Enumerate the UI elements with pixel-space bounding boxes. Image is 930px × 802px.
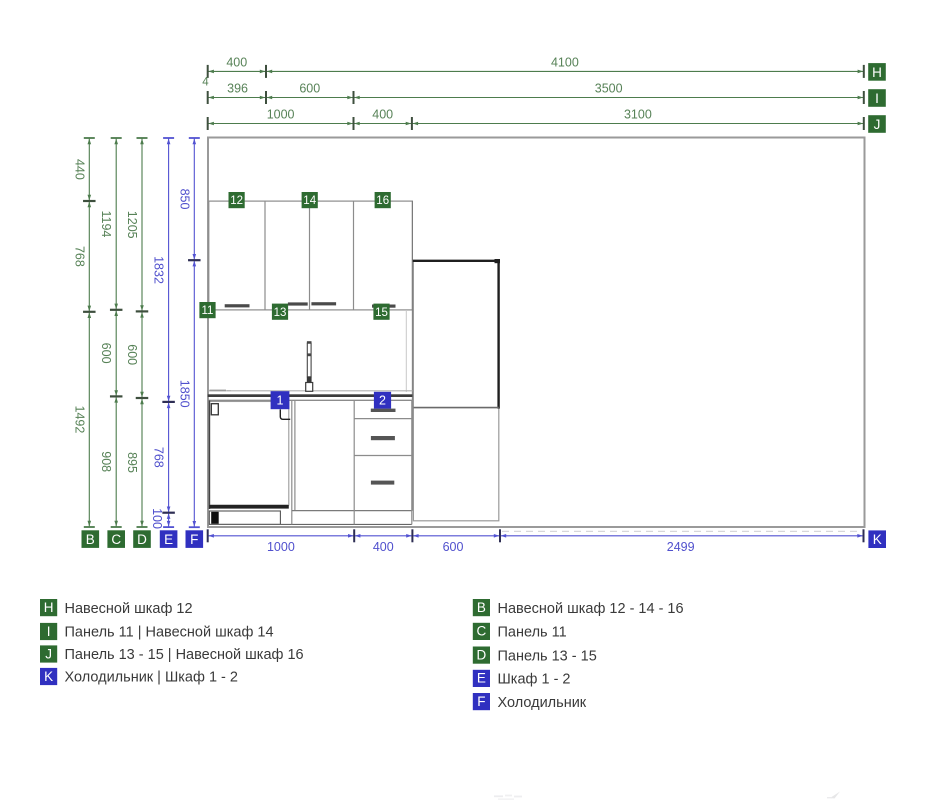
svg-text:11: 11 [202,305,214,317]
svg-text:600: 600 [125,344,139,365]
dimension line E [150,138,175,529]
tag C [107,530,125,548]
svg-text:16: 16 [376,195,389,207]
legend row J [40,645,304,663]
svg-text:F: F [190,532,198,547]
drawer unit edges [354,400,412,524]
svg-text:C: C [477,624,487,639]
svg-text:Навесной шкаф 12: Навесной шкаф 12 [65,601,193,617]
tag 16 [375,192,391,208]
legend row F [473,693,587,711]
svg-text:600: 600 [299,82,320,96]
drawer handle 2 [371,436,395,440]
svg-text:768: 768 [152,447,166,468]
svg-text:K: K [873,532,882,547]
svg-text:H: H [44,600,54,615]
plinth bottom line [209,523,411,525]
svg-text:Панель 11: Панель 11 [498,625,567,641]
svg-text:4: 4 [202,77,209,89]
svg-text:1000: 1000 [267,108,295,122]
legend row I [40,623,274,641]
tag K [868,530,886,548]
svg-text:13: 13 [274,307,287,319]
svg-text:J: J [874,117,881,132]
svg-text:Навесной шкаф 12 - 14 - 16: Навесной шкаф 12 - 14 - 16 [498,601,684,617]
svg-text:4100: 4100 [551,56,579,70]
svg-text:I: I [875,91,879,106]
svg-text:H: H [872,65,882,80]
sink cabinet door edges [292,400,295,524]
svg-text:396: 396 [227,82,248,96]
svg-text:Панель 13 - 15 | Навесной шкаф: Панель 13 - 15 | Навесной шкаф 16 [65,647,304,663]
svg-text:400: 400 [372,108,393,122]
dimension line I [208,82,864,104]
svg-text:1492: 1492 [72,405,86,433]
tag I [868,89,886,107]
svg-text:E: E [164,532,173,547]
tag 2 [374,392,391,409]
svg-text:440: 440 [72,159,86,180]
dimension line D [125,138,148,527]
svg-text:3500: 3500 [595,82,623,96]
svg-text:1205: 1205 [125,211,139,239]
svg-text:12: 12 [230,195,243,207]
svg-text:E: E [477,671,486,686]
fridge body [413,259,500,521]
svg-text:J: J [45,646,52,661]
tag H [868,63,886,81]
backsplash panel right edge [411,201,413,511]
svg-text:1194: 1194 [99,210,113,237]
legend row D [473,647,597,665]
tag F [186,530,204,548]
wall cabinet handle (door 12) [225,304,250,307]
drawer handle 3 [371,481,394,485]
svg-text:Панель 11 | Навесной шкаф 14: Панель 11 | Навесной шкаф 14 [65,625,274,641]
svg-text:I: I [47,624,51,639]
sink rim marks [210,390,232,392]
svg-text:Холодильник | Шкаф 1 - 2: Холодильник | Шкаф 1 - 2 [65,670,238,686]
svg-text:2: 2 [379,394,386,408]
svg-text:1000: 1000 [267,540,295,554]
base cabinets top rail [208,399,412,401]
backsplash inner faint line [405,310,407,392]
base cabinet 1 handle [211,404,218,415]
drawer handle 1 [371,409,396,412]
legend row B [473,599,684,617]
plinth box [209,511,280,524]
tag 12 [229,192,245,208]
faint artifact left [494,795,522,800]
legend row C [473,623,567,641]
faint floor noise dashes [502,530,858,532]
wall cabinet handle (door 14 left) [288,302,308,305]
base cabinets bottom line [292,510,412,512]
svg-text:1832: 1832 [152,256,166,284]
svg-text:600: 600 [99,343,113,364]
dimension line F [177,138,200,527]
svg-text:F: F [477,694,485,709]
base cabinet 1 door bottom bar [209,505,288,509]
wall cabinets 12-14-16 outline [209,201,413,310]
wall cabinet handle (door 16) [372,305,396,308]
dimension line H [208,56,864,78]
svg-text:908: 908 [99,451,113,472]
tag 11 [199,302,215,318]
wall outline [208,138,865,528]
legend row K [40,668,238,686]
svg-text:D: D [477,647,487,662]
svg-text:K: K [44,669,53,684]
tag 13 [272,304,288,320]
svg-text:B: B [86,532,95,547]
svg-text:B: B [477,600,486,615]
faint artifact right [827,792,840,799]
svg-text:895: 895 [125,452,139,473]
svg-text:1850: 1850 [177,380,191,408]
legend row H [40,599,193,617]
svg-text:1: 1 [277,394,284,408]
svg-text:3100: 3100 [624,108,652,122]
wall cabinet handle (door 14 right) [311,302,336,305]
counter back edge line [209,390,413,392]
dimension line J [208,108,864,130]
plinth leg (black) [211,512,219,524]
svg-text:600: 600 [443,540,464,554]
svg-text:100: 100 [150,508,164,529]
countertop [208,394,413,397]
faucet [306,341,313,391]
dimension line B [72,138,95,527]
dimension line C [99,138,122,527]
tag 14 [302,192,318,208]
svg-text:768: 768 [72,246,86,267]
svg-text:14: 14 [303,195,316,207]
tag 15 [373,304,389,320]
tag 1 [271,391,290,409]
svg-text:Панель 13 - 15: Панель 13 - 15 [498,648,597,664]
svg-text:C: C [111,532,121,547]
svg-text:850: 850 [177,189,191,210]
svg-text:Шкаф 1 - 2: Шкаф 1 - 2 [498,672,571,688]
fridge door split [413,407,498,409]
svg-text:D: D [137,532,147,547]
tag 1 leader line [280,409,290,419]
legend row E [473,670,571,688]
base cabinet 1 door [209,401,288,510]
svg-text:15: 15 [375,307,388,319]
svg-text:Холодильник: Холодильник [498,695,587,711]
svg-text:400: 400 [373,540,394,554]
svg-text:2499: 2499 [667,540,695,554]
tag J [868,115,886,133]
tag D [133,530,151,548]
tag E [160,530,178,548]
tag B [82,530,100,548]
svg-text:400: 400 [226,56,247,70]
dimension line K [208,529,864,554]
